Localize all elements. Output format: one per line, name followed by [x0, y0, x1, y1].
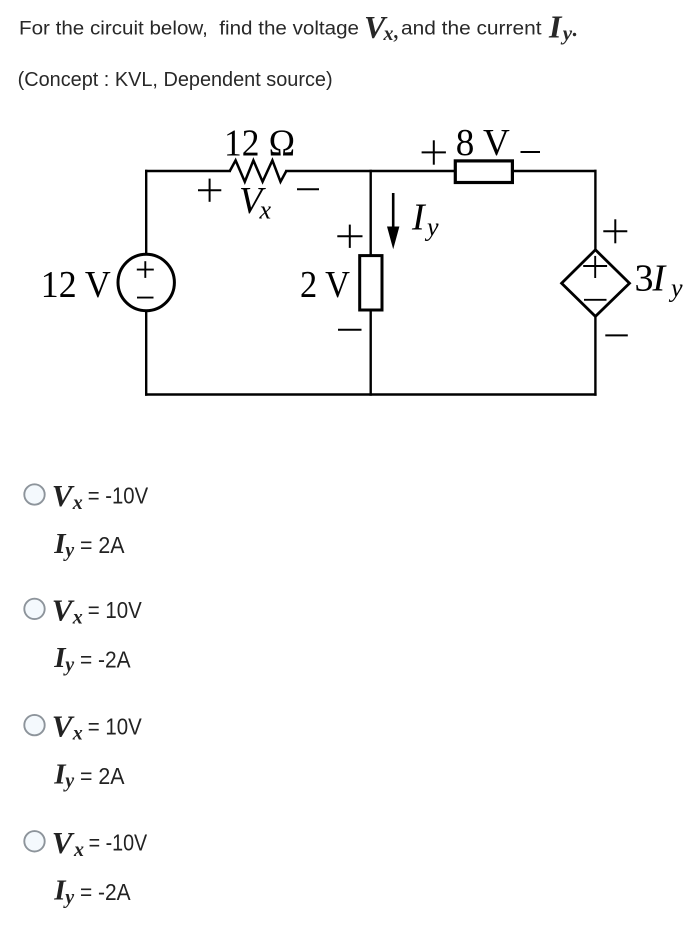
svg-text:x: x — [73, 839, 84, 861]
svg-text:(Concept : KVL, Dependent sour: (Concept : KVL, Dependent source) — [18, 69, 333, 91]
V1 plus sign — [137, 261, 154, 278]
svg-text:8 V: 8 V — [456, 122, 511, 164]
svg-text:y: y — [63, 770, 74, 792]
wire right upper segment (top corner to dependent source) — [594, 171, 596, 250]
svg-text:y: y — [668, 273, 683, 302]
label plus of 2V — [337, 225, 362, 248]
svg-text:y: y — [63, 654, 74, 676]
label plus of 8V — [422, 140, 446, 164]
option 1 line 1: Vx = -10V — [52, 478, 149, 514]
resistor R1 12 ohm zigzag — [230, 160, 286, 181]
svg-text:For the circuit below, find t: For the circuit below, find the voltage — [19, 18, 359, 39]
label minus of Vx — [297, 188, 319, 190]
svg-text:x: x — [72, 606, 83, 628]
wire top-left segment (left corner to resistor) — [146, 170, 230, 172]
wire left lower segment (12V source to bottom corner) — [145, 310, 147, 395]
svg-text:I: I — [411, 196, 427, 238]
option 3 line 2: Iy = 2A — [53, 758, 125, 792]
radio button option 2 — [24, 599, 44, 619]
svg-text:x: x — [72, 492, 83, 514]
wire top-middle segment (resistor to 8V box) — [286, 170, 455, 172]
label Iy — [411, 196, 439, 241]
label minus below dependent source — [605, 334, 628, 336]
svg-text:V: V — [52, 478, 75, 513]
svg-text:I: I — [652, 258, 668, 300]
title line 1 text part A — [19, 18, 542, 39]
svg-text:= 10V: = 10V — [88, 713, 143, 739]
element E1 8V box — [455, 161, 512, 183]
label plus above dependent source — [603, 219, 627, 243]
title math Vx — [364, 9, 399, 45]
svg-text:x: x — [72, 723, 83, 745]
radio button option 3 — [24, 715, 44, 735]
svg-text:and the current: and the current — [401, 18, 542, 39]
wire left upper segment (top corner to 12V source) — [145, 171, 147, 255]
label 3Iy — [635, 258, 684, 303]
option 2 line 2: Iy = -2A — [53, 642, 131, 676]
svg-text:= 2A: = 2A — [80, 532, 125, 558]
voltage source V1 12V circle — [118, 254, 174, 310]
V1 minus sign — [137, 297, 154, 299]
option 4 line 2: Iy = -2A — [53, 875, 131, 909]
label minus of 8V — [521, 151, 541, 153]
svg-text:= 2A: = 2A — [80, 763, 125, 789]
option 4 line 1: Vx = -10V — [52, 825, 148, 861]
wire middle lower segment (2V box to bottom node) — [370, 310, 372, 395]
svg-text:I: I — [548, 9, 563, 45]
svg-text:V: V — [52, 825, 75, 860]
wire right lower segment (dependent source to bottom corner) — [594, 316, 596, 394]
minus inside dependent source — [584, 299, 607, 301]
svg-text:y: y — [63, 540, 74, 562]
element E2 2V box — [360, 256, 382, 310]
svg-text:12 V: 12 V — [41, 264, 112, 306]
svg-text:3: 3 — [635, 258, 654, 300]
title math Iy and period — [548, 9, 578, 45]
svg-text:= -2A: = -2A — [80, 879, 131, 905]
svg-text:= -10V: = -10V — [89, 830, 148, 856]
label Vx under resistor — [239, 180, 272, 224]
svg-text:V: V — [52, 592, 75, 627]
dependent source U1 diamond — [562, 250, 630, 317]
svg-text:= -10V: = -10V — [88, 483, 149, 509]
svg-text:y: y — [63, 886, 74, 908]
label minus of 2V — [338, 329, 362, 331]
svg-text:x: x — [259, 195, 272, 224]
svg-text:,: , — [393, 15, 400, 44]
option 3 line 1: Vx = 10V — [52, 709, 143, 745]
current arrow Iy — [387, 193, 399, 249]
plus inside dependent source — [583, 256, 607, 278]
svg-text:12 Ω: 12 Ω — [224, 123, 296, 165]
wire bottom segment — [146, 393, 595, 395]
svg-text:2 V: 2 V — [300, 264, 350, 306]
svg-text:= -2A: = -2A — [80, 647, 131, 673]
svg-text:V: V — [52, 709, 75, 744]
svg-text:.: . — [571, 10, 579, 43]
svg-text:y: y — [424, 213, 439, 242]
wire top-right segment (8V box to right corner) — [512, 170, 595, 172]
radio button option 4 — [24, 831, 44, 851]
label plus of Vx — [198, 179, 221, 202]
option 1 line 2: Iy = 2A — [53, 528, 125, 562]
option 2 line 1: Vx = 10V — [52, 592, 143, 628]
radio button option 1 — [24, 484, 44, 504]
wire middle upper segment (top node to 2V box) — [370, 171, 372, 256]
svg-text:= 10V: = 10V — [88, 597, 143, 623]
